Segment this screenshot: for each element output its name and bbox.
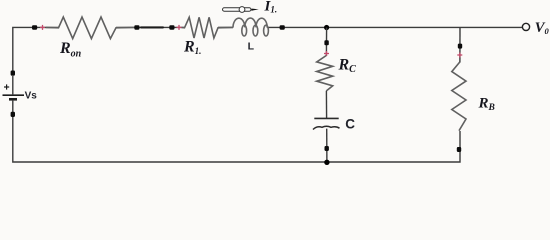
wire middle branch upper — [325, 28, 327, 57]
terminal mark C bottom — [325, 146, 329, 151]
capacitor C — [314, 117, 338, 119]
inductor L — [233, 18, 268, 36]
current arrow IL — [223, 7, 259, 13]
svg-text:Vs: Vs — [25, 90, 38, 101]
wire RC to capacitor — [325, 91, 327, 118]
terminal mark RB bottom — [457, 147, 461, 152]
wire bottom rail — [13, 115, 460, 162]
wire R1 to L — [218, 26, 233, 28]
battery source Vs — [3, 76, 25, 112]
wire L to terminal V0 — [267, 26, 522, 28]
node junction top — [324, 25, 329, 30]
wire top rail left — [13, 27, 59, 72]
terminal mark after inductor — [280, 25, 285, 29]
terminal mark on top wire left — [32, 25, 37, 29]
terminal mark mid wire a — [134, 25, 139, 29]
resistor RC — [317, 56, 333, 92]
output terminal V0 — [522, 23, 529, 30]
node junction bottom — [324, 160, 329, 165]
wire Ron to R1 — [116, 26, 185, 28]
resistor RB — [452, 62, 466, 131]
wire right branch upper — [459, 27, 461, 62]
battery plus sign — [4, 84, 9, 89]
resistor R1 — [182, 17, 234, 38]
svg-text:L: L — [248, 41, 255, 53]
probe plus mark RC — [324, 51, 329, 56]
wire capacitor to bottom rail — [326, 129, 328, 162]
probe plus mark RB — [457, 53, 462, 58]
probe plus mark left — [40, 25, 45, 30]
terminal mark Vs top — [11, 71, 15, 76]
terminal mark Vs bottom — [11, 112, 15, 117]
wire thick segment between terminals — [141, 26, 163, 28]
terminal mark mid wire b — [169, 25, 174, 29]
resistor Ron — [46, 17, 135, 39]
probe plus mark R1 — [177, 25, 182, 30]
terminal mark RC top — [324, 40, 328, 45]
svg-text:C: C — [345, 117, 355, 132]
terminal mark RB top — [458, 44, 462, 49]
